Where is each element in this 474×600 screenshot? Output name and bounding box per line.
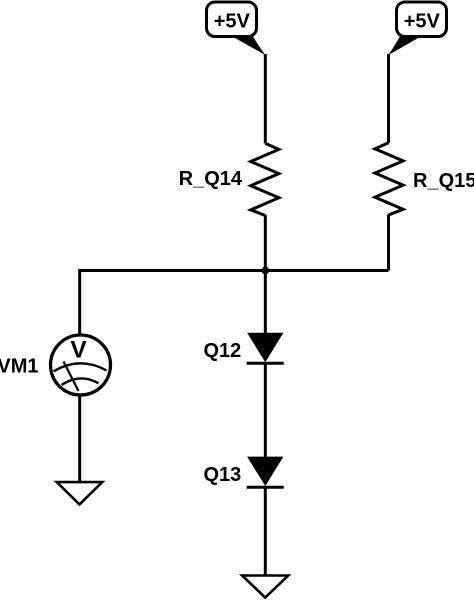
svg-text:R_Q15: R_Q15 — [413, 170, 474, 192]
wire — [387, 215, 390, 271]
diode Q12 — [203, 333, 283, 363]
wire (horizontal bus) — [80, 269, 389, 272]
svg-text:R_Q14: R_Q14 — [179, 168, 243, 190]
svg-text:+5V: +5V — [214, 11, 251, 33]
diode Q13 — [203, 457, 283, 487]
svg-text:+5V: +5V — [404, 11, 441, 33]
svg-text:VM1: VM1 — [0, 356, 39, 378]
ground (left) — [57, 482, 103, 504]
power flag +5V (left) — [207, 2, 266, 55]
wire — [264, 487, 267, 574]
svg-text:Q13: Q13 — [203, 464, 241, 486]
ground (bottom) — [242, 576, 288, 598]
wire — [78, 269, 81, 334]
junction node — [261, 267, 269, 275]
wire — [264, 363, 267, 457]
wire — [78, 396, 81, 481]
wire — [264, 54, 267, 143]
resistor R_Q15 — [375, 143, 474, 215]
wire — [264, 215, 267, 271]
wire — [387, 54, 390, 143]
svg-text:V: V — [70, 337, 87, 364]
resistor R_Q14 — [179, 143, 279, 215]
voltmeter VM1 — [0, 335, 111, 395]
wire — [264, 271, 267, 334]
svg-text:Q12: Q12 — [203, 340, 241, 362]
power flag +5V (right) — [389, 2, 447, 55]
